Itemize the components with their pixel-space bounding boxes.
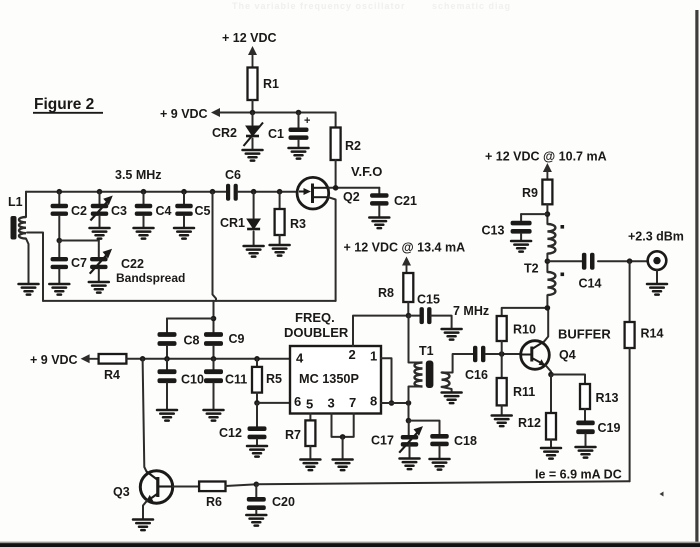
scan border right: [695, 10, 698, 547]
wire +9V rail: [253, 112, 336, 114]
svg-text:+ 9 VDC: + 9 VDC: [30, 353, 78, 367]
resistor R12: [546, 413, 556, 440]
capacitor C10 lead: [166, 359, 168, 370]
supply arrow up: [248, 46, 257, 68]
node bus to T1: [406, 400, 412, 406]
capacitor C6: [226, 184, 238, 201]
capacitor C2: [51, 204, 69, 216]
resistor R7: [305, 420, 315, 446]
svg-text:+2.3 dBm: +2.3 dBm: [628, 230, 684, 244]
ground C4: [134, 228, 154, 239]
wire R7 to ground: [309, 446, 311, 460]
capacitor C11: [204, 369, 223, 383]
wire C11 to ground: [213, 383, 215, 410]
capacitor C1: [289, 128, 309, 140]
svg-text:R10: R10: [513, 323, 536, 337]
ground C3: [90, 228, 110, 239]
wire tank bottom feedback: [43, 300, 336, 302]
svg-text:C20: C20: [272, 495, 295, 509]
transformer T1 core: [426, 361, 434, 389]
resistor R3: [275, 209, 285, 235]
svg-text:R1: R1: [263, 77, 279, 91]
capacitor C3 lead: [99, 192, 101, 204]
svg-text:V.F.O: V.F.O: [351, 164, 382, 179]
svg-text:C13: C13: [482, 224, 505, 238]
svg-text:C10: C10: [181, 373, 204, 387]
stray mark: [660, 492, 664, 497]
capacitor C5 lead: [183, 192, 185, 204]
zener diode CR2: [246, 126, 259, 136]
svg-text:Q4: Q4: [559, 348, 576, 362]
node CR1 tap: [251, 189, 257, 195]
svg-text:R4: R4: [104, 368, 120, 382]
C17 tuning arrow: [399, 426, 423, 453]
ground pins 3-7: [333, 460, 353, 471]
wire emitter to R13: [551, 375, 585, 385]
svg-text:R12: R12: [518, 416, 541, 430]
wire C17 to ground: [409, 445, 411, 459]
node C1 tap: [296, 110, 302, 116]
svg-text:T1: T1: [419, 344, 434, 358]
svg-text:5: 5: [306, 397, 313, 412]
svg-text:7 MHz: 7 MHz: [453, 304, 489, 318]
svg-text:C9: C9: [229, 332, 245, 346]
svg-text:C5: C5: [195, 204, 211, 218]
svg-text:3: 3: [328, 396, 335, 411]
ground C12: [247, 446, 267, 457]
capacitor C4 lead: [143, 192, 145, 204]
svg-text:+ 12 VDC @ 10.7 mA: + 12 VDC @ 10.7 mA: [485, 150, 607, 164]
node +9V R1 junction: [250, 110, 256, 116]
wire C2 to C7 node: [58, 216, 60, 241]
Q3 emitter to ground: [143, 501, 147, 520]
wire C13 to ground: [520, 234, 522, 241]
T2 secondary polarity dot: [561, 273, 565, 277]
capacitor C20: [247, 497, 266, 510]
T2 primary polarity dot: [561, 225, 565, 229]
ground connector: [647, 284, 667, 295]
svg-text:R11: R11: [513, 385, 535, 399]
resistor R7 stub: [309, 414, 311, 421]
svg-text:C8: C8: [184, 334, 200, 348]
wire pin6: [257, 402, 290, 404]
svg-text:CR1: CR1: [220, 216, 245, 230]
wire C3 to ground: [99, 216, 101, 228]
wire C5 to ground: [183, 216, 185, 228]
ground C10: [157, 410, 177, 421]
wire C18 to ground: [439, 446, 441, 459]
node R2/drain junction: [333, 185, 339, 191]
wire connector to ground: [656, 270, 658, 284]
ground CR2: [243, 150, 263, 161]
capacitor C2 lead: [58, 192, 60, 204]
svg-text:C1: C1: [268, 127, 284, 141]
Q4 collector wire: [544, 308, 548, 342]
wire CR1 to ground: [253, 232, 255, 247]
capacitor C14: [582, 253, 595, 270]
svg-text:R13: R13: [596, 391, 619, 405]
diode CR1 lead: [253, 192, 255, 218]
svg-text:R7: R7: [285, 428, 301, 442]
resistor R10 top wire: [502, 308, 548, 316]
svg-text:R14: R14: [641, 327, 664, 341]
wire C15 to ground: [431, 316, 452, 329]
svg-text:FREQ.: FREQ.: [295, 310, 335, 325]
wire R8 to node: [407, 302, 409, 316]
capacitor C12 lead: [256, 403, 258, 427]
wire C10 to ground: [166, 383, 168, 410]
output connector J1: [648, 251, 667, 270]
capacitor C13 lead: [520, 214, 522, 221]
ground C7: [49, 284, 69, 295]
resistor R11: [497, 378, 507, 405]
transformer T1 secondary coil: [442, 373, 450, 387]
capacitor C8: [158, 332, 177, 346]
R8 supply arrow: [402, 257, 411, 274]
resistor R6: [199, 482, 225, 492]
wire C1 to ground: [298, 140, 300, 148]
svg-text:Q3: Q3: [113, 485, 130, 499]
capacitor C18: [430, 434, 449, 446]
transformer T2 primary coil: [547, 224, 555, 254]
node C8/C9 junction: [211, 316, 217, 322]
pin 1 wire: [381, 358, 392, 403]
wire AGC feedback bottom: [256, 481, 629, 484]
ground L1: [19, 284, 39, 295]
title Figure 2: [33, 96, 103, 113]
node R8/C15/pin2: [406, 313, 412, 319]
resistor R10: [497, 316, 507, 341]
svg-text:C4: C4: [156, 204, 172, 218]
wire Q3 base to R6: [173, 486, 199, 488]
ground C22: [89, 282, 109, 293]
wire C7 to ground: [58, 269, 60, 284]
wire R9 to T2: [546, 204, 548, 224]
node Q3 collector tap: [140, 356, 146, 362]
node R5 tap: [254, 356, 260, 362]
svg-text:+ 12 VDC: + 12 VDC: [222, 31, 277, 45]
wire C9 feed: [213, 301, 215, 332]
ground C18: [430, 459, 450, 470]
svg-text:C16: C16: [465, 368, 488, 382]
svg-text:3.5 MHz: 3.5 MHz: [115, 168, 162, 182]
wire C20 to ground: [255, 510, 257, 515]
wire C19 to ground: [585, 434, 587, 447]
wire to C18: [409, 421, 440, 435]
node tank output corner: [210, 189, 216, 195]
CR2 slash arrow: [244, 123, 264, 147]
wire C22 branch: [59, 240, 99, 242]
svg-text:C17: C17: [371, 434, 394, 448]
resistor R4: [99, 354, 127, 364]
svg-text:C11: C11: [225, 373, 247, 387]
svg-text:R6: R6: [206, 495, 222, 509]
ground Q3: [133, 520, 153, 531]
svg-text:8: 8: [370, 394, 377, 409]
wire T2 bottom: [546, 295, 548, 308]
svg-text:L1: L1: [8, 195, 23, 209]
transformer T2 secondary coil: [547, 272, 555, 295]
node C3 top: [97, 189, 103, 195]
svg-text:MC 1350P: MC 1350P: [299, 372, 359, 386]
capacitor C19: [576, 421, 595, 435]
svg-text:R9: R9: [522, 186, 538, 200]
wire C22 lead: [98, 241, 100, 258]
node C11 tap: [211, 356, 217, 362]
ground C17: [400, 459, 420, 470]
C22 tuning arrow: [90, 249, 112, 274]
node T2 tap: [545, 258, 551, 264]
resistor R11 lead: [501, 354, 503, 378]
node R14 tap: [627, 258, 633, 264]
wire C14 to output: [598, 260, 648, 262]
+9V arrow left: [211, 108, 253, 117]
resistor R9: [542, 180, 552, 205]
svg-text:Bandspread: Bandspread: [116, 271, 185, 285]
svg-text:C7: C7: [71, 256, 87, 270]
svg-text:C18: C18: [454, 434, 477, 448]
svg-text:The variable frequency oscilla: The variable frequency oscillator: [232, 1, 406, 11]
wire R14 down right edge: [629, 348, 631, 481]
svg-text:+ 9 VDC: + 9 VDC: [160, 107, 208, 121]
node C17/C18 junction: [406, 418, 412, 424]
wire tap to C14: [547, 260, 582, 262]
node T2/R10/Q4 junction: [545, 305, 551, 311]
ground T1 secondary: [442, 393, 462, 404]
C3 tuning arrow: [90, 196, 112, 221]
wire C16 to base node: [486, 353, 522, 355]
transistor Q3: [140, 471, 172, 503]
capacitor C21: [370, 193, 389, 205]
wire CR2 to ground: [252, 139, 254, 151]
capacitor C5: [175, 204, 193, 216]
resistor R5 lead: [256, 359, 258, 367]
capacitor C7 lead: [58, 241, 60, 258]
wire to C17: [408, 421, 410, 436]
wire Q2 source down: [328, 197, 335, 301]
variable capacitor C17: [401, 435, 419, 447]
resistor R1: [248, 68, 258, 101]
transformer T1 primary stubs: [409, 363, 423, 387]
inductor L1 coil: [19, 217, 26, 239]
capacitor C13: [511, 221, 532, 234]
T1 secondary bottom lead: [442, 387, 452, 393]
resistor R13: [580, 384, 590, 409]
transistor Q4: [521, 341, 550, 370]
svg-text:C19: C19: [598, 421, 621, 435]
pin 8 bus wire: [381, 402, 409, 404]
svg-text:C6: C6: [225, 168, 241, 182]
wire R11 to ground: [501, 405, 503, 415]
node R5/C12/pin6: [254, 400, 260, 406]
ground C19: [576, 447, 596, 458]
wire C8 branch: [167, 318, 214, 320]
svg-text:R8: R8: [378, 286, 394, 300]
ground C13: [511, 241, 531, 252]
wire +9V to R2: [335, 113, 337, 128]
node Q4 base: [499, 351, 505, 357]
wire pins 3-7 to ground: [342, 437, 344, 460]
capacitor C1 lead: [298, 113, 300, 128]
svg-text:1: 1: [370, 349, 377, 364]
resistor R14: [625, 322, 635, 348]
ground C20: [246, 515, 266, 526]
svg-text:R3: R3: [290, 217, 306, 231]
Q3 collector wire from 9V rail: [143, 359, 147, 472]
node C4 top: [141, 189, 147, 195]
svg-text:C21: C21: [394, 194, 417, 208]
capacitor C10: [158, 369, 177, 383]
svg-text:6: 6: [294, 394, 301, 409]
wire C22 to ground: [98, 269, 100, 282]
IC U1 MC1350P box: [290, 346, 381, 414]
svg-text:Q2: Q2: [343, 190, 360, 204]
svg-text:schematic diag: schematic diag: [432, 1, 511, 11]
T1 secondary top lead: [442, 354, 474, 373]
svg-text:C2: C2: [71, 204, 87, 218]
svg-text:+ 12 VDC @ 13.4 mA: + 12 VDC @ 13.4 mA: [344, 241, 466, 255]
transistor Q2 JFET: [297, 177, 329, 209]
svg-text:R5: R5: [266, 372, 282, 386]
ground R12: [541, 448, 561, 459]
capacitor C7: [51, 257, 69, 269]
resistor R3 lead: [279, 192, 281, 209]
node pin1/pin8 bus: [389, 400, 395, 406]
svg-text:C12: C12: [219, 426, 242, 440]
capacitor C16: [473, 346, 485, 363]
transformer T1 primary coil: [415, 363, 423, 387]
scan border bottom: [0, 543, 700, 547]
wire R5 to pin6 node: [256, 393, 258, 403]
wire tank top rail: [26, 191, 226, 193]
wire C12 to ground: [256, 439, 258, 446]
capacitor C15: [420, 307, 432, 324]
svg-text:Ie = 6.9 mA DC: Ie = 6.9 mA DC: [535, 468, 622, 482]
wire R13 to C19: [584, 409, 586, 421]
wire Q2 drain to C21: [329, 187, 380, 189]
zener CR2 lead: [252, 113, 254, 126]
node C20 tap: [253, 482, 259, 488]
ground C21: [369, 218, 389, 229]
svg-text:2: 2: [349, 347, 356, 362]
capacitor C20 lead: [255, 484, 257, 497]
svg-text:BUFFER: BUFFER: [558, 327, 611, 342]
ground C5: [174, 228, 194, 239]
svg-text:T2: T2: [524, 262, 539, 276]
diode CR1: [247, 219, 260, 229]
capacitor C12: [248, 426, 267, 439]
wire R12 to ground: [550, 440, 552, 449]
R9 supply arrow: [543, 163, 552, 180]
ground R11: [492, 416, 512, 427]
capacitor C9: [204, 332, 223, 346]
node R3 tap: [277, 189, 283, 195]
resistor R2: [331, 128, 341, 161]
node C10 tap: [164, 356, 170, 362]
wire R10 to base node: [501, 341, 503, 354]
inductor L1 top lead: [25, 192, 27, 217]
capacitor C11 lead: [213, 359, 215, 370]
svg-text:R2: R2: [345, 139, 361, 153]
node C2 top: [57, 189, 63, 195]
node R9/C13 junction: [545, 211, 551, 217]
svg-text:C22: C22: [121, 257, 144, 271]
wire R6 to C20 node: [226, 484, 257, 486]
wire C8 lead: [166, 319, 168, 333]
capacitor C21 lead: [378, 188, 380, 194]
node pins 3-7 ground: [340, 434, 346, 440]
svg-text:7: 7: [349, 395, 356, 410]
svg-text:C14: C14: [579, 277, 602, 291]
pin 2 wire to R8 node: [353, 316, 409, 346]
svg-text:Figure 2: Figure 2: [34, 96, 94, 113]
wire R1 to +9V node: [252, 100, 254, 113]
resistor R5: [252, 367, 262, 393]
svg-text:4: 4: [296, 351, 304, 366]
L1 tap wire: [27, 233, 43, 301]
ground R7: [300, 460, 320, 471]
ground CR1: [244, 246, 264, 257]
wire C9 to 9V rail: [213, 346, 215, 359]
wire C4 to ground: [143, 216, 145, 228]
wire T1 to pin8 bus: [408, 387, 410, 421]
wire to C15: [409, 315, 420, 317]
ground R3: [270, 245, 290, 256]
+9V left arrow: [81, 354, 99, 363]
wire R3 to ground: [279, 235, 281, 245]
svg-text:C3: C3: [111, 204, 127, 218]
L1 bottom lead to ground: [26, 239, 29, 284]
pins 3-7 ground U wire: [332, 414, 354, 437]
node C5 top: [181, 189, 187, 195]
ground C1: [289, 148, 309, 159]
inductor L1 core: [11, 216, 17, 240]
node Q4 emitter junction: [548, 372, 554, 378]
svg-text:DOUBLER: DOUBLER: [284, 325, 349, 340]
Q4 emitter wire: [546, 366, 551, 375]
wire T2 tap: [546, 254, 548, 272]
variable capacitor C3: [91, 204, 109, 216]
wire C8 to 9V rail: [166, 346, 168, 359]
wire emitter to R12: [550, 375, 552, 414]
wire 9V rail to doubler: [126, 358, 290, 360]
wire R2 to VFO node: [335, 160, 337, 188]
ground C15: [442, 329, 462, 340]
svg-text:+: +: [304, 115, 310, 127]
wire node to T1 primary: [408, 316, 410, 363]
wire C6 to gate: [238, 191, 297, 193]
variable capacitor C22: [90, 257, 108, 269]
wire R14 top: [629, 261, 631, 322]
wire tank right vertical: [213, 192, 217, 301]
node C2/C7 junction: [57, 238, 63, 244]
wire C21 to ground: [378, 206, 380, 218]
svg-text:CR2: CR2: [212, 126, 237, 140]
wire C13 branch: [521, 213, 547, 215]
ground C11: [204, 410, 224, 421]
capacitor C4: [135, 204, 153, 216]
resistor R8: [403, 273, 413, 302]
svg-text:C15: C15: [417, 293, 440, 307]
